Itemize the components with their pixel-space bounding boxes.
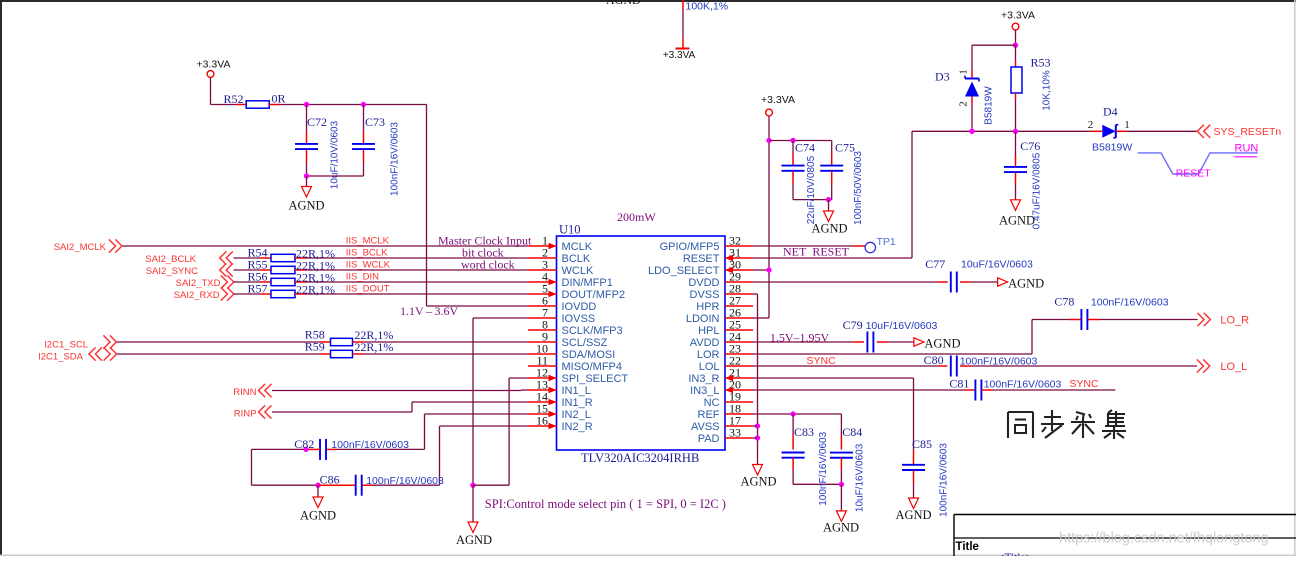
svg-text:U10: U10 [559,223,581,237]
svg-text:100nF/16V/0603: 100nF/16V/0603 [331,439,409,451]
svg-text:AGND: AGND [895,508,931,522]
svg-text:C72: C72 [307,115,327,129]
svg-text:1: 1 [958,69,970,75]
svg-text:SAI2_RXD: SAI2_RXD [174,290,220,301]
svg-text:DVDD: DVDD [688,277,719,289]
svg-text:LOR: LOR [697,349,720,361]
svg-text:SCL/SSZ: SCL/SSZ [562,337,608,349]
svg-text:100nF/16V/0603: 100nF/16V/0603 [1091,297,1169,309]
svg-text:33: 33 [729,426,741,440]
svg-text:IN1_L: IN1_L [562,385,591,397]
svg-text:IOVSS: IOVSS [562,313,596,325]
svg-text:1: 1 [1124,119,1130,131]
svg-text:TP1: TP1 [877,236,896,248]
svg-text:10K,10%: 10K,10% [1042,70,1053,111]
svg-text:IIS_BCLK: IIS_BCLK [346,248,388,259]
svg-text:SAI2_TXD: SAI2_TXD [176,278,221,289]
svg-text:100nF/16V/0603: 100nF/16V/0603 [818,431,829,505]
svg-text:IOVDD: IOVDD [562,301,597,313]
svg-text:AGND: AGND [1008,277,1044,291]
svg-text:IN3_R: IN3_R [688,373,719,385]
svg-text:C85: C85 [912,437,932,451]
svg-text:0R: 0R [272,92,286,106]
svg-text:C80: C80 [924,353,944,367]
svg-text:R57: R57 [248,282,268,296]
svg-text:IIS_MCLK: IIS_MCLK [346,236,390,247]
svg-text:C82: C82 [294,437,314,451]
svg-text:200mW: 200mW [617,210,656,224]
svg-text:AGND: AGND [999,213,1035,227]
svg-text:IN1_R: IN1_R [562,397,593,409]
svg-text:NET RESET: NET RESET [783,245,850,259]
svg-text:MCLK: MCLK [562,241,593,253]
svg-text:IIS_WCLK: IIS_WCLK [346,260,391,271]
svg-text:SDA/MOSI: SDA/MOSI [562,349,616,361]
svg-text:R52: R52 [224,92,244,106]
svg-text:RINN: RINN [233,387,256,398]
svg-text:LDOIN: LDOIN [686,313,720,325]
svg-text:10uF/16V/0603: 10uF/16V/0603 [854,443,865,512]
svg-text:10uF/16V/0603: 10uF/16V/0603 [961,259,1033,271]
svg-text:PAD: PAD [698,433,720,445]
svg-text:2: 2 [958,101,970,107]
svg-text:SYS_RESETn: SYS_RESETn [1214,126,1282,138]
svg-text:C81: C81 [949,377,969,391]
svg-text:D3: D3 [935,70,950,84]
svg-text:LO_R: LO_R [1220,315,1249,327]
svg-text:C73: C73 [365,115,385,129]
svg-text:C77: C77 [925,257,945,271]
svg-text:22R,1%: 22R,1% [354,340,393,354]
svg-text:16: 16 [536,414,548,428]
svg-text:1.1V – 3.6V: 1.1V – 3.6V [400,304,458,318]
svg-text:10uF/16V/0603: 10uF/16V/0603 [866,320,938,332]
svg-text:100nF/16V/0603: 100nF/16V/0603 [390,122,401,196]
svg-text:I2C1_SDA: I2C1_SDA [38,352,84,363]
svg-text:C83: C83 [794,425,814,439]
svg-text:2: 2 [1088,119,1094,131]
svg-text:100nF/16V/0603: 100nF/16V/0603 [984,379,1062,391]
svg-text:GPIO/MFP5: GPIO/MFP5 [660,241,720,253]
svg-text:0.47uF/16V/0805: 0.47uF/16V/0805 [1031,152,1042,229]
svg-text:MISO/MFP4: MISO/MFP4 [562,361,623,373]
svg-text:WCLK: WCLK [562,265,594,277]
svg-text:SAI2_SYNC: SAI2_SYNC [146,266,198,277]
svg-text:HPR: HPR [696,301,719,313]
svg-text:C76: C76 [1020,139,1040,153]
svg-text:DVSS: DVSS [690,289,720,301]
svg-text:AGND: AGND [740,475,776,489]
svg-text:RESET: RESET [683,253,720,265]
svg-text:C86: C86 [320,472,340,486]
svg-text:C75: C75 [835,141,855,155]
svg-text:IN3_L: IN3_L [690,385,719,397]
svg-text:LOL: LOL [699,361,720,373]
svg-text:LDO_SELECT: LDO_SELECT [648,265,720,277]
svg-text:D4: D4 [1103,105,1118,119]
svg-text:1.5V–1.95V: 1.5V–1.95V [770,331,830,345]
svg-text:10uF/10V/0603: 10uF/10V/0603 [330,120,341,189]
svg-text:AGND: AGND [288,199,324,213]
svg-text:AGND: AGND [606,0,641,7]
svg-text:100K,1%: 100K,1% [686,1,729,13]
svg-text:B5819W: B5819W [1092,142,1132,154]
svg-text:DIN/MFP1: DIN/MFP1 [562,277,613,289]
svg-text:R59: R59 [305,340,325,354]
svg-text:<Title>: <Title> [999,552,1032,557]
svg-text:LO_L: LO_L [1220,361,1247,373]
svg-text:word clock: word clock [461,258,515,272]
svg-text:RINP: RINP [234,409,257,420]
svg-text:DOUT/MFP2: DOUT/MFP2 [562,289,626,301]
svg-text:HPL: HPL [698,325,719,337]
svg-text:+3.3VA: +3.3VA [1001,10,1035,22]
svg-text:R53: R53 [1031,56,1051,70]
svg-text:IIS_DIN: IIS_DIN [346,272,379,283]
svg-text:REF: REF [698,409,720,421]
svg-text:+3.3VA: +3.3VA [663,50,696,61]
svg-text:+3.3VA: +3.3VA [197,59,231,71]
svg-text:100nF/16V/0603: 100nF/16V/0603 [939,443,950,517]
svg-text:100nF/50V/0603: 100nF/50V/0603 [853,151,864,225]
svg-text:RUN: RUN [1235,143,1259,155]
svg-text:AGND: AGND [300,509,336,523]
svg-text:RESET: RESET [1176,168,1212,180]
svg-text:SAI2_BCLK: SAI2_BCLK [145,254,196,265]
svg-text:SPI:Control mode select pin (: SPI:Control mode select pin ( 1 = SPI, 0… [485,497,726,511]
svg-text:SPI_SELECT: SPI_SELECT [562,373,629,385]
svg-text:AGND: AGND [823,521,859,535]
svg-text:C84: C84 [842,425,862,439]
svg-text:AVDD: AVDD [690,337,720,349]
svg-text:100nF/16V/0603: 100nF/16V/0603 [366,475,444,487]
svg-text:NC: NC [704,397,720,409]
svg-text:100nF/16V/0603: 100nF/16V/0603 [960,356,1038,368]
svg-text:SYNC: SYNC [1069,378,1099,390]
svg-text:AGND: AGND [924,337,960,351]
svg-text:C79: C79 [843,318,863,332]
svg-text:C74: C74 [795,141,815,155]
svg-text:AVSS: AVSS [691,421,720,433]
svg-text:I2C1_SCL: I2C1_SCL [44,340,88,351]
svg-text:SCLK/MFP3: SCLK/MFP3 [562,325,623,337]
svg-text:C78: C78 [1054,295,1074,309]
svg-text:Title: Title [956,541,979,553]
svg-text:https://blog.csdn.net/fhqlongt: https://blog.csdn.net/fhqlongtong [1059,531,1269,547]
svg-text:IIS_DOUT: IIS_DOUT [346,284,390,295]
svg-text:AGND: AGND [456,533,492,547]
svg-text:IN2_L: IN2_L [562,409,591,421]
svg-text:22R,1%: 22R,1% [296,283,335,297]
svg-text:TLV320AIC3204IRHB: TLV320AIC3204IRHB [581,451,699,465]
svg-text:SYNC: SYNC [807,355,837,367]
svg-text:B5819W: B5819W [984,86,995,125]
svg-text:+3.3VA: +3.3VA [761,94,795,106]
svg-text:IN2_R: IN2_R [562,421,593,433]
svg-text:22uF/10V/0805: 22uF/10V/0805 [806,155,817,224]
svg-text:SAI2_MCLK: SAI2_MCLK [54,242,107,253]
svg-text:BCLK: BCLK [562,253,591,265]
